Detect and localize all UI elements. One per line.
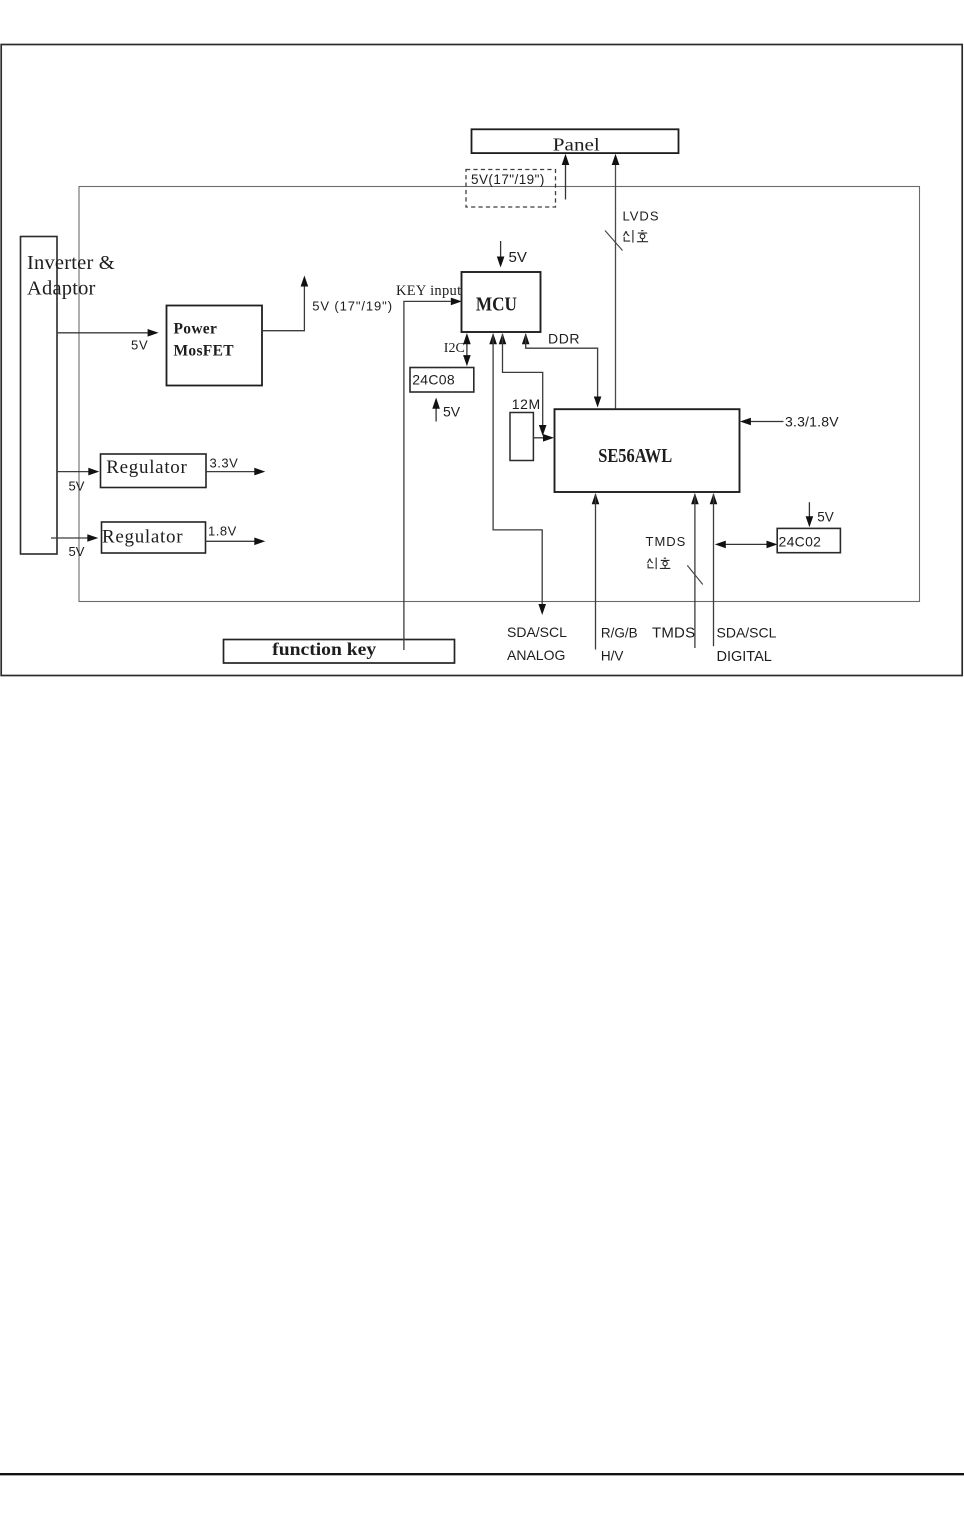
- svg-text:5V: 5V: [509, 249, 527, 266]
- wire 5V up into 24C08: [432, 398, 460, 422]
- wire R/G/B H/V into SE56AWL: [592, 493, 600, 650]
- svg-text:MosFET: MosFET: [174, 343, 235, 360]
- panel box U-PANEL: [472, 129, 679, 154]
- box inverter & adaptor: [21, 237, 115, 555]
- wire MCU to 12M junction: [499, 333, 547, 436]
- wire inverter to regulator1 5V: [57, 468, 99, 494]
- svg-text:function key: function key: [272, 639, 376, 659]
- svg-text:Regulator: Regulator: [102, 527, 183, 548]
- svg-text:TMDS: TMDS: [646, 534, 687, 549]
- svg-text:I2C: I2C: [444, 341, 465, 356]
- svg-text:24C08: 24C08: [412, 371, 455, 387]
- svg-text:KEY input: KEY input: [396, 283, 461, 299]
- wire 12M to SE56AWL: [533, 434, 554, 442]
- box MCU U1: [462, 272, 541, 332]
- svg-text:ANALOG: ANALOG: [507, 647, 565, 663]
- label SDA/SCL DIGITAL: [717, 624, 777, 665]
- wire mosfet output 5V (17"/19"): [262, 276, 393, 331]
- svg-text:R/G/B: R/G/B: [601, 626, 638, 641]
- svg-text:DIGITAL: DIGITAL: [717, 649, 772, 665]
- label TMDS sinho: [646, 534, 687, 549]
- svg-text:3.3/1.8V: 3.3/1.8V: [785, 414, 839, 430]
- box 24C08: [410, 368, 474, 393]
- svg-text:3.3V: 3.3V: [210, 455, 239, 470]
- label sinho(korean) TMDS: [648, 558, 671, 570]
- wire 5V into MCU top: [497, 241, 527, 268]
- svg-text:24C02: 24C02: [779, 533, 822, 549]
- wire TMDS into SE56AWL: [691, 493, 699, 648]
- svg-text:Regulator: Regulator: [106, 457, 187, 478]
- svg-text:1.8V: 1.8V: [208, 523, 237, 538]
- box regulator 2: [102, 522, 206, 553]
- svg-text:5V: 5V: [443, 404, 461, 420]
- box 24C02: [777, 528, 840, 552]
- box 12M crystal: [510, 396, 541, 461]
- wire KEY input (function key to MCU): [396, 283, 462, 650]
- svg-text:5V(17"/19"): 5V(17"/19"): [471, 172, 545, 187]
- wire LVDS (SE56AWL to Panel): [612, 154, 620, 409]
- svg-text:Power: Power: [174, 321, 218, 338]
- wire double arrow SDA/SCL to 24C02: [715, 541, 778, 549]
- outer frame: [1, 45, 962, 676]
- wire I2C double arrow MCU-24C08: [444, 333, 471, 366]
- svg-text:12M: 12M: [512, 396, 541, 412]
- label sinho(korean) LVDS: [624, 230, 649, 243]
- box regulator 1: [101, 454, 207, 488]
- inner frame: [79, 187, 920, 602]
- bus slash TMDS: [687, 565, 703, 584]
- svg-text:5V (17"/19"): 5V (17"/19"): [312, 299, 393, 314]
- label SDA/SCL ANALOG: [507, 624, 567, 663]
- wire DDR (SE56AWL to MCU): [522, 331, 602, 408]
- bottom rule: [0, 1473, 964, 1475]
- svg-text:5V: 5V: [69, 479, 85, 494]
- svg-text:H/V: H/V: [601, 649, 624, 664]
- svg-text:TMDS: TMDS: [652, 624, 695, 641]
- svg-text:Inverter &: Inverter &: [27, 252, 115, 274]
- svg-text:SE56AWL: SE56AWL: [598, 446, 672, 467]
- svg-text:Panel: Panel: [553, 135, 600, 155]
- box power mosfet: [167, 306, 263, 386]
- svg-text:Adaptor: Adaptor: [27, 278, 96, 300]
- svg-text:5V: 5V: [817, 510, 834, 525]
- label R/G/B H/V: [601, 626, 638, 664]
- box function key: [224, 639, 455, 663]
- bus slash LVDS: [605, 231, 623, 251]
- wire inverter to mosfet 5V: [57, 329, 159, 353]
- dashed box 5V(17"/19"): [466, 170, 556, 208]
- svg-text:5V: 5V: [69, 544, 85, 559]
- wire MCU to SDA/SCL ANALOG: [489, 333, 546, 615]
- wire regulator2 out 1.8V: [206, 523, 266, 545]
- wire inverter to regulator2 5V: [51, 534, 98, 559]
- box SE56AWL U2: [555, 409, 740, 492]
- svg-text:5V: 5V: [131, 338, 149, 353]
- svg-text:SDA/SCL: SDA/SCL: [717, 624, 777, 640]
- wire SDA/SCL DIGITAL into SE56AWL: [710, 493, 718, 646]
- wire regulator1 out 3.3V: [206, 455, 265, 475]
- svg-text:SDA/SCL: SDA/SCL: [507, 624, 567, 640]
- wire 5V into 24C02: [806, 502, 834, 527]
- svg-text:MCU: MCU: [476, 294, 517, 316]
- svg-text:DDR: DDR: [548, 331, 580, 347]
- svg-text:LVDS: LVDS: [623, 209, 660, 224]
- wire 5V to Panel: [562, 154, 570, 200]
- wire 3.3/1.8V into SE56AWL: [740, 414, 839, 430]
